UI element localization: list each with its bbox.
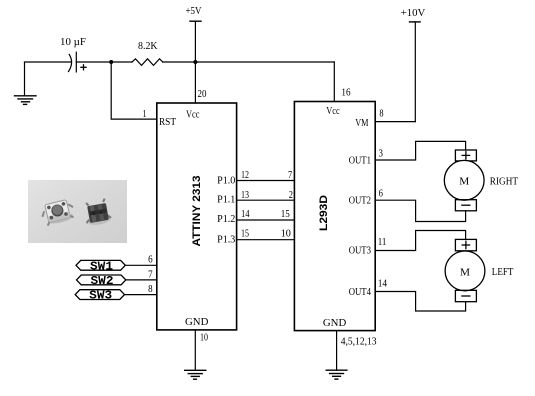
svg-text:13: 13 [241,189,249,201]
svg-text:ATTINY 2313: ATTINY 2313 [191,176,203,247]
svg-text:+5V: +5V [186,5,202,17]
svg-text:8: 8 [379,108,384,120]
svg-text:11: 11 [378,236,387,248]
svg-text:SW3: SW3 [89,289,112,303]
tag SW1 [76,259,125,273]
svg-text:14: 14 [241,208,250,220]
wire OUT3 pin 11 to left motor + [375,231,465,251]
wire P1.3 to L293D pin 10 [237,239,295,241]
ground (under U1) [185,370,206,379]
svg-text:Vcc: Vcc [186,109,200,121]
svg-text:16: 16 [341,87,351,99]
wire OUT1 pin 3 to right motor + [375,141,465,160]
wire OUT2 pin 6 to right motor - [375,200,465,221]
resistor R1 (8.2K) [132,59,163,66]
svg-text:+10V: +10V [401,7,426,19]
wire capacitor to resistor [76,61,132,63]
svg-text:2: 2 [289,189,293,201]
svg-text:20: 20 [198,88,207,100]
wire VM pin 8 [375,121,415,123]
left tactile switch (top view) [40,198,76,226]
wire P1.2 to L293D pin 15 [237,219,295,221]
svg-text:OUT4: OUT4 [349,286,372,298]
svg-text:15: 15 [281,208,290,220]
photo of tactile switches [28,180,127,243]
ground (under U2) [326,370,347,379]
+5V supply [190,21,201,62]
tag SW2 [77,274,126,288]
right tactile switch (bottom view) [83,198,112,226]
wire SW1 to pin 6 [125,264,157,266]
svg-text:OUT1: OUT1 [349,155,371,167]
svg-text:VM: VM [355,117,368,129]
wire resistor to L293D Vcc [163,61,334,63]
svg-text:14: 14 [378,278,388,290]
svg-text:OUT3: OUT3 [349,245,372,257]
wire P1.1 to L293D pin 2 [237,199,295,201]
svg-text:3: 3 [379,147,384,159]
motor M1 (RIGHT) [444,150,484,211]
svg-text:Vcc: Vcc [326,105,340,117]
svg-text:8: 8 [148,283,153,295]
ground (top-left) [15,62,37,104]
svg-text:7: 7 [288,169,293,181]
svg-text:6: 6 [379,188,384,200]
wire node A to RST pin 1 [111,62,157,119]
svg-text:10 µF: 10 µF [60,36,86,48]
svg-text:P1.0: P1.0 [217,174,236,186]
svg-text:10: 10 [200,331,208,343]
svg-text:10: 10 [281,228,292,240]
svg-text:RIGHT: RIGHT [490,175,518,187]
wire SW2 to pin 7 [126,279,157,281]
svg-text:SW2: SW2 [91,274,114,288]
capacitor C1 (10 uF) [69,52,87,72]
svg-text:8.2K: 8.2K [138,40,158,52]
svg-text:P1.2: P1.2 [217,213,235,225]
svg-text:15: 15 [241,228,249,240]
svg-text:12: 12 [241,169,249,181]
svg-text:SW1: SW1 [90,259,113,273]
node A (junction cap/resistor/RST) [109,60,113,64]
tag SW3 [75,289,124,303]
svg-text:RST: RST [159,116,176,128]
wire pin 16 stub [333,62,335,102]
wire U2 GND stub (pins 4,5,12,13) [336,331,338,371]
wire OUT4 pin 14 to left motor - [375,292,465,312]
svg-text:6: 6 [148,254,153,266]
svg-text:P1.3: P1.3 [217,233,236,245]
svg-text:LEFT: LEFT [492,266,514,278]
svg-text:M: M [460,266,470,278]
svg-text:4,5,12,13: 4,5,12,13 [341,336,377,348]
svg-text:M: M [459,176,469,188]
svg-text:OUT2: OUT2 [349,194,371,206]
motor M2 (LEFT) [445,239,485,301]
node B (junction +5V / pin 20) [193,60,197,64]
svg-text:GND: GND [185,316,208,328]
svg-text:P1.1: P1.1 [217,194,235,206]
wire P1.0 to L293D pin 7 [237,180,295,182]
svg-text:1: 1 [143,108,147,120]
wire pin 10 stub (U1 GND) [194,330,196,370]
wire pin 20 stub [194,62,196,103]
svg-text:7: 7 [148,268,153,280]
wire SW3 to pin 8 [125,294,157,296]
IC U1 ATTINY 2313 box [157,103,237,330]
IC U2 L293D box [294,102,375,331]
+10V supply [410,22,421,122]
svg-text:GND: GND [323,317,346,329]
wire ground to capacitor [25,61,72,63]
svg-text:L293D: L293D [318,195,330,231]
